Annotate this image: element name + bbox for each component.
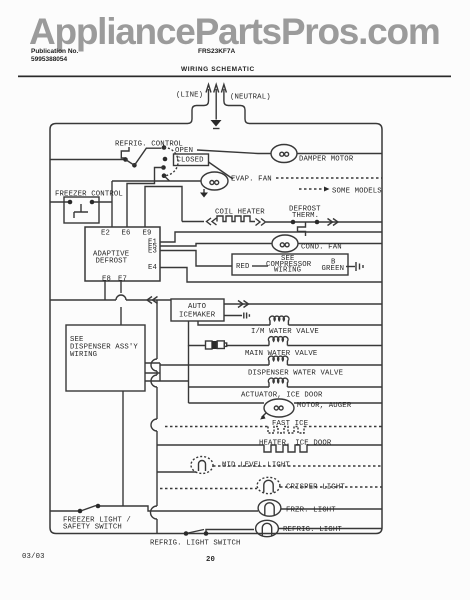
svg-text:DISPENSER WATER VALVE: DISPENSER WATER VALVE (248, 370, 343, 378)
svg-text:CLOSED: CLOSED (177, 157, 205, 165)
svg-text:CRISPER LIGHT: CRISPER LIGHT (286, 484, 345, 492)
svg-text:FRZR. LIGHT: FRZR. LIGHT (286, 507, 336, 515)
svg-text:E7: E7 (118, 276, 127, 284)
svg-text:03/03: 03/03 (22, 553, 45, 561)
svg-text:SOME MODELS: SOME MODELS (332, 188, 382, 196)
svg-text:THERM.: THERM. (292, 212, 319, 220)
svg-text:E4: E4 (148, 264, 158, 272)
svg-text:E8: E8 (102, 276, 111, 284)
svg-text:RED: RED (236, 263, 250, 271)
svg-text:(NEUTRAL): (NEUTRAL) (230, 94, 271, 102)
svg-text:(LINE): (LINE) (176, 92, 203, 100)
svg-text:SAFETY SWITCH: SAFETY SWITCH (63, 524, 122, 532)
svg-text:I/M WATER VALVE: I/M WATER VALVE (251, 328, 319, 336)
svg-text:WIRING: WIRING (274, 267, 301, 275)
svg-text:REFRIG. LIGHT SWITCH: REFRIG. LIGHT SWITCH (150, 540, 241, 548)
svg-text:ICEMAKER: ICEMAKER (179, 312, 216, 320)
svg-text:ACTUATOR, ICE DOOR: ACTUATOR, ICE DOOR (241, 392, 323, 400)
svg-text:E9: E9 (143, 230, 152, 238)
svg-text:WIRING: WIRING (70, 351, 97, 359)
svg-text:MID LEVEL LIGHT: MID LEVEL LIGHT (222, 462, 290, 470)
svg-text:AUTO: AUTO (188, 303, 207, 311)
svg-text:E2: E2 (101, 230, 110, 238)
svg-text:DAMPER MOTOR: DAMPER MOTOR (299, 156, 354, 164)
svg-text:MOTOR, AUGER: MOTOR, AUGER (297, 402, 352, 410)
svg-text:E6: E6 (122, 230, 131, 238)
svg-text:REFRIG. LIGHT: REFRIG. LIGHT (283, 526, 342, 534)
svg-text:DEFROST: DEFROST (96, 258, 128, 266)
svg-text:E3: E3 (148, 248, 157, 256)
svg-text:REFRIG. CONTROL: REFRIG. CONTROL (115, 141, 183, 149)
svg-text:COND. FAN: COND. FAN (301, 244, 342, 252)
svg-text:GREEN: GREEN (322, 265, 345, 273)
svg-text:20: 20 (206, 556, 215, 564)
svg-text:EVAP. FAN: EVAP. FAN (231, 176, 272, 184)
